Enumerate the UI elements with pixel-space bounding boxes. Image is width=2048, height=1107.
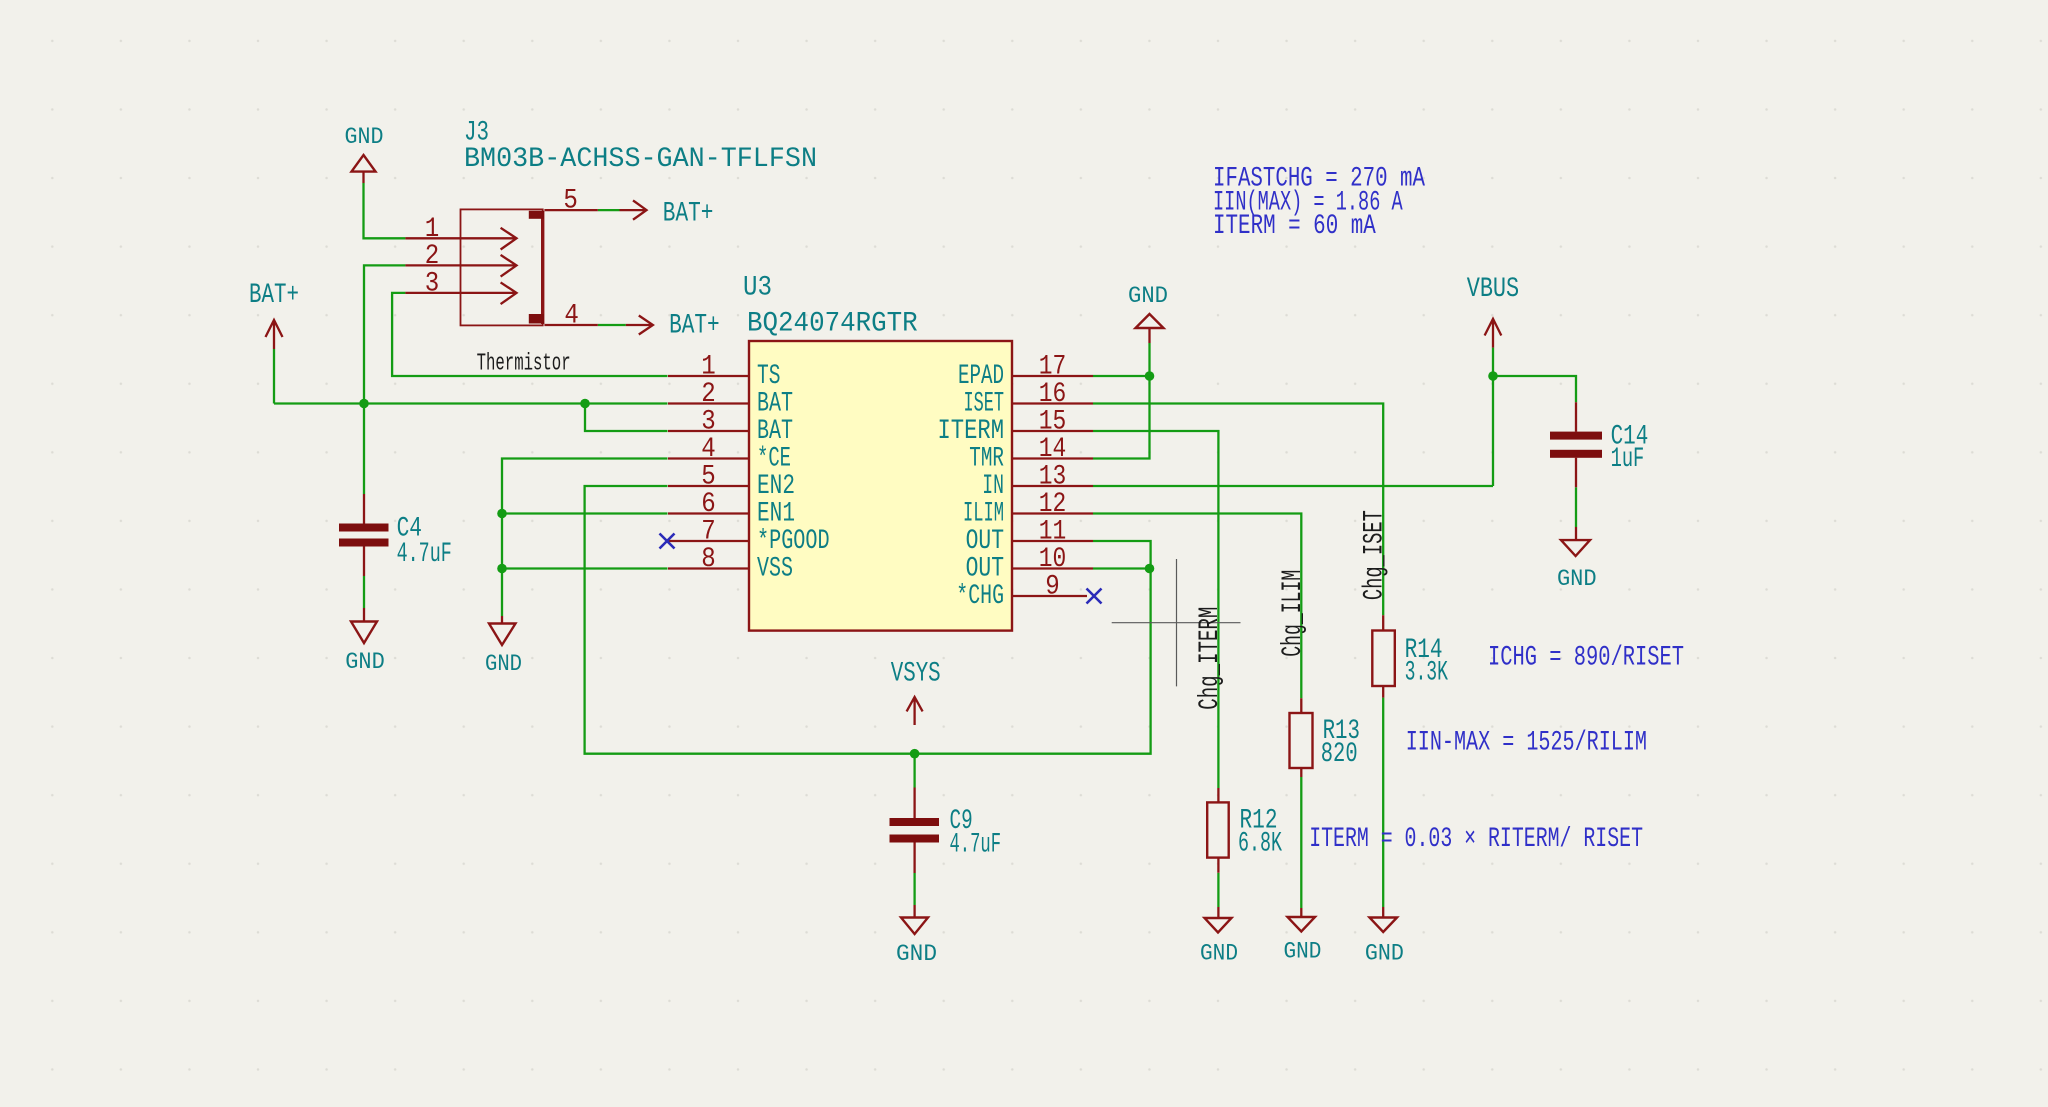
svg-text:EN1: EN1 [757,499,795,530]
wire J3 pin2 to BAT+ bus [364,265,405,403]
svg-text:GND: GND [1128,283,1168,310]
U3 pin 5 EN2 [668,485,749,487]
wire IN to VBUS [1093,485,1493,487]
ground below C9 [913,905,915,918]
wire ISET to R14 [1093,404,1383,616]
capacitor C9 [913,788,915,874]
junction EN1 [497,509,507,519]
svg-text:16: 16 [1039,379,1067,410]
svg-text:*PGOOD: *PGOOD [757,526,830,557]
power arrow VBUS [1485,319,1502,348]
wire OUT pin11 to column [1093,541,1151,569]
svg-text:GND: GND [1365,941,1404,968]
junction VBUS/C14 [1488,371,1498,381]
svg-text:6.8K: 6.8K [1238,828,1282,859]
U3 pin 4 *CE [668,457,749,459]
J3 pad pin5 [529,211,544,219]
power arrow BAT+ left [266,320,283,349]
ground below CE column [501,616,503,624]
wire VBUS vertical [1492,348,1494,486]
wire ILIM to R13 [1093,514,1301,699]
svg-text:3.3K: 3.3K [1405,658,1449,689]
wire GND column through junction to TMR [1093,343,1150,459]
svg-text:IIN-MAX = 1525/RILIM: IIN-MAX = 1525/RILIM [1406,728,1647,759]
svg-text:BQ24074RGTR: BQ24074RGTR [747,309,918,340]
wire J3 pin4 to BAT+ [598,324,626,326]
wire C9 bottom to GND [913,873,915,905]
resistor R12 [1217,788,1219,873]
J3 pad pin4 [529,314,544,324]
svg-text:BAT+: BAT+ [249,280,299,311]
svg-text:IN: IN [982,471,1004,502]
svg-text:15: 15 [1039,407,1067,438]
junction BAT+/C4 [359,399,369,409]
ground top-left [362,172,364,183]
svg-text:*CE: *CE [757,444,791,475]
U3 pin 16 ISET [1012,402,1093,404]
svg-text:GND: GND [345,124,384,151]
J3 thick bar [541,211,544,324]
U3 pin 13 IN [1012,485,1093,487]
svg-text:GND: GND [896,941,937,968]
power arrow BAT+ at J3 pin5 [620,200,647,219]
U3 pin 2 BAT [668,402,749,404]
svg-text:ICHG = 890/RISET: ICHG = 890/RISET [1488,642,1684,673]
U3 pin 8 VSS [668,567,749,569]
svg-text:ITERM: ITERM [938,416,1005,447]
J3 pin 4 [544,324,597,326]
junction BAT pins [580,399,590,409]
wire EN2 to VSYS bus to OUT column [585,486,1151,754]
svg-text:Chg_ISET: Chg_ISET [1360,510,1391,600]
svg-text:5: 5 [563,186,578,217]
svg-text:1uF: 1uF [1611,444,1645,475]
J3 pin 3 with arrow [405,282,516,304]
svg-text:BM03B-ACHSS-GAN-TFLFSN: BM03B-ACHSS-GAN-TFLFSN [464,144,817,175]
svg-text:VBUS: VBUS [1467,274,1520,305]
wire GND-top-left to J3 pin1 [364,183,406,238]
junction VSYS [910,749,920,759]
svg-text:820: 820 [1321,739,1358,770]
wire R12 bottom to GND [1217,873,1219,907]
U3 pin 10 OUT [1012,567,1093,569]
svg-text:GND: GND [1284,939,1322,966]
U3 pin 17 EPAD [1012,375,1093,377]
svg-text:11: 11 [1039,517,1067,548]
svg-text:ISET: ISET [964,389,1005,420]
svg-text:2: 2 [701,379,716,410]
wire BAT+ arrow stem down [273,349,275,404]
svg-text:TS: TS [757,361,781,392]
wire *CE column to GND [502,459,668,617]
capacitor C4 [363,494,365,576]
wire VSYS junction to C9 [913,754,915,788]
svg-text:6: 6 [701,489,716,520]
svg-text:14: 14 [1039,434,1067,465]
svg-text:*CHG: *CHG [956,581,1004,612]
svg-text:4: 4 [701,434,716,465]
ground below R14 [1382,907,1384,918]
J3 pin 2 with arrow [405,255,516,277]
wire C4 bottom to GND [363,576,365,608]
ground below C14 [1575,527,1577,540]
wire C14 bottom to GND [1575,487,1577,527]
svg-text:4: 4 [564,301,579,332]
resistor R13 [1300,698,1302,777]
svg-text:OUT: OUT [966,526,1004,557]
wire VBUS junction to C14 [1493,376,1576,402]
U3 pin 12 ILIM [1012,512,1093,514]
svg-text:9: 9 [1045,572,1060,603]
wire R14 bottom to GND [1382,698,1384,907]
svg-text:GND: GND [485,651,522,678]
svg-text:BAT: BAT [757,389,793,420]
resistor R14 [1382,615,1384,697]
svg-text:2: 2 [425,241,440,272]
svg-text:7: 7 [701,517,716,548]
U3 pin 14 TMR [1012,457,1093,459]
svg-text:12: 12 [1039,489,1067,520]
connector J3 body [461,209,543,325]
power arrow BAT+ at J3 pin4 [626,316,653,335]
U3 pin 3 BAT [668,430,749,432]
svg-text:8: 8 [701,544,716,575]
ground below C4 [363,608,365,622]
svg-text:GND: GND [345,649,385,676]
svg-text:GND: GND [1200,941,1238,968]
ground above EPAD [1148,328,1150,343]
IC U3 body [749,341,1012,631]
crosshair cursor [1112,559,1241,686]
svg-text:BAT+: BAT+ [669,311,720,342]
svg-text:13: 13 [1039,462,1067,493]
svg-text:5: 5 [701,462,716,493]
svg-text:ITERM = 0.03 × RITERM/ RISET: ITERM = 0.03 × RITERM/ RISET [1309,824,1643,855]
svg-text:1: 1 [701,352,716,383]
svg-text:VSYS: VSYS [891,659,941,690]
svg-text:Thermistor: Thermistor [477,351,571,378]
U3 pin 7 *PGOOD [668,540,749,542]
svg-text:ILIM: ILIM [963,499,1004,530]
capacitor C14 [1575,402,1577,487]
wire ITERM to R12 [1093,431,1218,788]
svg-text:TMR: TMR [969,444,1004,475]
svg-text:BAT: BAT [757,416,793,447]
svg-text:Chg_ILIM: Chg_ILIM [1278,570,1309,657]
ground below R12 [1217,907,1219,918]
svg-text:ITERM = 60 mA: ITERM = 60 mA [1213,211,1376,242]
svg-text:EN2: EN2 [757,471,795,502]
svg-text:U3: U3 [743,272,772,303]
power arrow VSYS [907,697,923,725]
junction EPAD/GND [1145,371,1155,381]
svg-text:OUT: OUT [966,554,1004,585]
wire VSS row [502,567,668,569]
svg-text:17: 17 [1039,352,1067,383]
wire BAT+ bus horizontal [274,402,668,404]
svg-text:Chg_ITERM: Chg_ITERM [1195,607,1226,710]
svg-text:10: 10 [1039,544,1067,575]
wire J3 pin3 to TS [392,293,667,376]
U3 pin 11 OUT [1012,540,1093,542]
svg-text:3: 3 [425,269,440,300]
wire R13 bottom to GND [1300,777,1302,908]
U3 pin 9 *CHG [1012,595,1087,597]
U3 pin 15 ITERM [1012,430,1093,432]
wire J3 pin5 to BAT+ [598,209,620,211]
svg-text:3: 3 [701,407,716,438]
J3 pin 5 [544,209,597,211]
junction VSS [497,564,507,574]
J3 pin 1 with arrow [405,228,516,250]
U3 pin 6 EN1 [668,512,749,514]
svg-text:VSS: VSS [757,554,793,585]
junction OUT pins [1145,564,1155,574]
no-connect X pin 9 [1087,589,1102,604]
wire bus down to C4 [363,404,365,495]
svg-text:4.7uF: 4.7uF [950,830,1002,861]
U3 pin 1 TS [668,375,749,377]
wire EPAD to GND column [1093,375,1150,377]
svg-text:GND: GND [1557,566,1597,593]
wire junction to BAT pin3 [585,404,668,432]
wire EN1 row [502,512,668,514]
ground below R13 [1300,908,1302,917]
wire OUT pin10 to junction [1093,567,1151,569]
svg-text:BAT+: BAT+ [663,199,714,230]
svg-text:4.7uF: 4.7uF [397,539,452,570]
no-connect X pin 7 [660,534,675,549]
svg-text:EPAD: EPAD [958,361,1004,392]
